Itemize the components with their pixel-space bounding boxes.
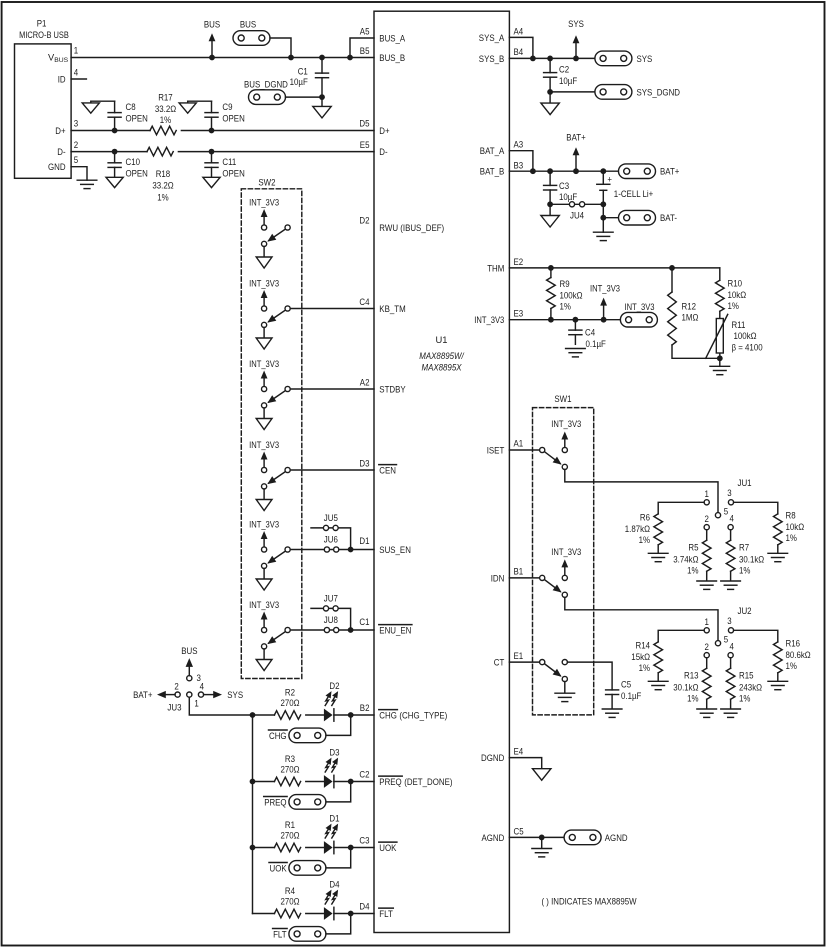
svg-text:(CHG_TYPE): (CHG_TYPE) <box>399 710 447 720</box>
svg-text:10µF: 10µF <box>559 76 577 86</box>
svg-text:C9: C9 <box>222 102 232 112</box>
svg-text:ENU_EN: ENU_EN <box>379 625 411 635</box>
svg-text:PREQ: PREQ <box>264 797 286 807</box>
svg-text:SYS: SYS <box>637 54 653 64</box>
svg-text:B1: B1 <box>514 567 524 577</box>
svg-text:1: 1 <box>74 46 78 56</box>
svg-text:BUS_DGND: BUS_DGND <box>244 80 288 90</box>
svg-text:CHG: CHG <box>269 731 287 741</box>
svg-text:BAT+: BAT+ <box>133 690 152 700</box>
svg-text:AGND: AGND <box>605 833 628 843</box>
svg-text:(DET_DONE): (DET_DONE) <box>404 777 452 787</box>
svg-text:1%: 1% <box>687 565 698 575</box>
svg-text:C1: C1 <box>298 66 308 76</box>
svg-text:80.6kΩ: 80.6kΩ <box>786 650 811 660</box>
svg-text:RWU (IBUS_DEF): RWU (IBUS_DEF) <box>379 223 444 233</box>
svg-text:1-CELL Li+: 1-CELL Li+ <box>614 189 654 199</box>
svg-text:R1: R1 <box>285 820 295 830</box>
svg-text:SYS_A: SYS_A <box>479 33 505 43</box>
svg-text:SYS: SYS <box>227 690 243 700</box>
svg-text:270Ω: 270Ω <box>281 764 300 774</box>
svg-text:A4: A4 <box>514 26 524 36</box>
svg-text:A2: A2 <box>360 377 370 387</box>
svg-text:MAX8895W/: MAX8895W/ <box>419 351 465 361</box>
svg-text:BUS: BUS <box>240 19 256 29</box>
svg-text:INT_3V3: INT_3V3 <box>551 419 581 429</box>
svg-text:D1: D1 <box>359 536 369 546</box>
svg-text:OPEN: OPEN <box>126 169 148 179</box>
svg-text:BUS_A: BUS_A <box>379 33 406 43</box>
svg-text:30.1kΩ: 30.1kΩ <box>739 554 764 564</box>
svg-text:4: 4 <box>730 513 734 523</box>
svg-text:2: 2 <box>74 140 78 150</box>
svg-text:JU8: JU8 <box>324 615 338 625</box>
svg-text:CEN: CEN <box>379 465 396 475</box>
svg-text:SYS_DGND: SYS_DGND <box>637 87 681 97</box>
svg-text:5: 5 <box>724 506 728 516</box>
svg-text:E4: E4 <box>514 747 524 757</box>
svg-text:D+: D+ <box>55 126 65 136</box>
svg-text:D-: D- <box>379 147 387 157</box>
svg-text:30.1kΩ: 30.1kΩ <box>673 682 698 692</box>
svg-text:R10: R10 <box>728 279 743 289</box>
svg-text:D+: D+ <box>379 126 389 136</box>
svg-text:BAT_A: BAT_A <box>480 146 505 156</box>
svg-text:E2: E2 <box>514 257 524 267</box>
svg-text:B5: B5 <box>360 46 370 56</box>
svg-text:INT_3V3: INT_3V3 <box>249 519 279 529</box>
svg-text:KB_TM: KB_TM <box>379 304 405 314</box>
svg-text:INT_3V3: INT_3V3 <box>590 284 620 294</box>
svg-text:C1: C1 <box>359 617 369 627</box>
svg-text:BAT+: BAT+ <box>566 132 585 142</box>
svg-text:E5: E5 <box>360 140 370 150</box>
svg-text:R5: R5 <box>688 543 698 553</box>
svg-text:PREQ: PREQ <box>379 777 401 787</box>
svg-text:B3: B3 <box>514 160 524 170</box>
svg-text:270Ω: 270Ω <box>281 698 300 708</box>
svg-text:1: 1 <box>705 617 709 627</box>
svg-text:C8: C8 <box>126 102 136 112</box>
svg-text:FLT: FLT <box>379 909 393 919</box>
svg-text:1%: 1% <box>560 302 571 312</box>
svg-text:GND: GND <box>48 162 66 172</box>
svg-text:ID: ID <box>58 74 66 84</box>
svg-text:JU4: JU4 <box>570 211 584 221</box>
svg-text:4: 4 <box>74 67 78 77</box>
svg-text:10µF: 10µF <box>559 192 577 202</box>
svg-text:R11: R11 <box>732 320 746 330</box>
svg-text:R14: R14 <box>636 641 651 651</box>
svg-text:C2: C2 <box>359 769 369 779</box>
svg-text:2: 2 <box>705 642 709 652</box>
svg-text:5: 5 <box>724 634 728 644</box>
svg-text:OPEN: OPEN <box>222 114 244 124</box>
svg-text:C3: C3 <box>559 181 569 191</box>
svg-text:STDBY: STDBY <box>379 384 405 394</box>
svg-text:P1: P1 <box>37 19 47 29</box>
svg-text:1MΩ: 1MΩ <box>682 312 699 322</box>
svg-text:1.87kΩ: 1.87kΩ <box>625 524 650 534</box>
svg-text:4: 4 <box>730 641 734 651</box>
svg-text:BAT_B: BAT_B <box>480 167 505 177</box>
svg-text:BUS_B: BUS_B <box>379 53 405 63</box>
svg-text:IDN: IDN <box>491 573 505 583</box>
svg-text:R4: R4 <box>285 886 295 896</box>
svg-text:R6: R6 <box>640 513 650 523</box>
svg-text:10µF: 10µF <box>290 77 308 87</box>
svg-text:100kΩ: 100kΩ <box>734 331 757 341</box>
svg-text:OPEN: OPEN <box>126 114 148 124</box>
svg-text:D4: D4 <box>359 901 369 911</box>
svg-text:SUS_EN: SUS_EN <box>379 545 411 555</box>
svg-text:33.2Ω: 33.2Ω <box>152 181 173 191</box>
svg-text:1%: 1% <box>786 661 797 671</box>
svg-text:A1: A1 <box>514 439 524 449</box>
svg-text:D4: D4 <box>329 880 339 890</box>
svg-text:INT_3V3: INT_3V3 <box>249 278 279 288</box>
svg-text:R15: R15 <box>739 671 754 681</box>
svg-text:R7: R7 <box>739 543 749 553</box>
svg-text:MICRO-B USB: MICRO-B USB <box>19 30 69 40</box>
svg-text:BAT+: BAT+ <box>660 167 679 177</box>
svg-text:15kΩ: 15kΩ <box>631 652 650 662</box>
svg-text:U1: U1 <box>436 335 448 345</box>
svg-text:C2: C2 <box>559 65 569 75</box>
svg-text:C11: C11 <box>222 157 236 167</box>
svg-text:1%: 1% <box>739 693 750 703</box>
svg-text:D5: D5 <box>359 119 369 129</box>
svg-text:FLT: FLT <box>273 929 287 939</box>
svg-text:A5: A5 <box>360 26 370 36</box>
svg-text:B2: B2 <box>360 703 370 713</box>
svg-text:BAT-: BAT- <box>660 213 677 223</box>
svg-text:BUS: BUS <box>181 646 197 656</box>
svg-text:R2: R2 <box>285 687 295 697</box>
svg-text:0.1µF: 0.1µF <box>621 691 642 701</box>
svg-text:UOK: UOK <box>379 843 397 853</box>
svg-text:C5: C5 <box>621 680 631 690</box>
svg-text:1%: 1% <box>157 192 168 202</box>
svg-text:SW1: SW1 <box>554 394 571 404</box>
svg-text:OPEN: OPEN <box>222 169 244 179</box>
svg-text:JU2: JU2 <box>738 606 752 616</box>
svg-text:β = 4100: β = 4100 <box>732 343 763 353</box>
svg-text:SW2: SW2 <box>258 177 275 187</box>
svg-text:3: 3 <box>727 488 731 498</box>
svg-text:C4: C4 <box>359 297 369 307</box>
svg-text:10kΩ: 10kΩ <box>786 522 805 532</box>
svg-text:D3: D3 <box>329 748 339 758</box>
svg-text:INT_3V3: INT_3V3 <box>625 302 655 312</box>
svg-text:R12: R12 <box>682 301 697 311</box>
svg-text:1%: 1% <box>160 115 171 125</box>
svg-text:1: 1 <box>194 699 198 709</box>
svg-text:D1: D1 <box>329 814 339 824</box>
svg-text:1%: 1% <box>728 301 739 311</box>
svg-text:C5: C5 <box>514 826 524 836</box>
svg-text:E1: E1 <box>514 651 524 661</box>
svg-text:BUS: BUS <box>204 19 220 29</box>
svg-text:33.2Ω: 33.2Ω <box>155 104 176 114</box>
svg-text:D2: D2 <box>329 681 339 691</box>
svg-text:270Ω: 270Ω <box>281 830 300 840</box>
svg-text:243kΩ: 243kΩ <box>739 682 762 692</box>
svg-text:R9: R9 <box>560 279 570 289</box>
svg-text:C10: C10 <box>126 157 141 167</box>
svg-text:1%: 1% <box>687 693 698 703</box>
svg-text:4: 4 <box>200 681 204 691</box>
svg-text:D3: D3 <box>359 458 369 468</box>
svg-text:JU5: JU5 <box>324 513 338 523</box>
svg-text:UOK: UOK <box>270 863 288 873</box>
svg-text:INT_3V3: INT_3V3 <box>249 600 279 610</box>
svg-text:B4: B4 <box>514 47 524 57</box>
svg-text:SYS_B: SYS_B <box>479 54 505 64</box>
svg-text:INT_3V3: INT_3V3 <box>249 359 279 369</box>
svg-text:C3: C3 <box>359 835 369 845</box>
svg-text:10kΩ: 10kΩ <box>728 290 747 300</box>
svg-text:JU3: JU3 <box>167 703 181 713</box>
svg-text:R3: R3 <box>285 754 295 764</box>
svg-text:( ) INDICATES MAX8895W: ( ) INDICATES MAX8895W <box>542 897 637 907</box>
svg-text:3: 3 <box>727 616 731 626</box>
svg-text:+: + <box>607 174 612 184</box>
svg-text:INT_3V3: INT_3V3 <box>551 547 581 557</box>
svg-text:D2: D2 <box>359 215 369 225</box>
svg-text:THM: THM <box>487 263 504 273</box>
svg-text:R16: R16 <box>786 639 801 649</box>
svg-text:R18: R18 <box>156 169 171 179</box>
svg-text:1: 1 <box>705 489 709 499</box>
svg-text:JU1: JU1 <box>738 478 752 488</box>
svg-text:CHG: CHG <box>379 710 397 720</box>
svg-text:INT_3V3: INT_3V3 <box>249 440 279 450</box>
svg-text:ISET: ISET <box>487 445 505 455</box>
svg-text:R8: R8 <box>786 511 796 521</box>
svg-text:INT_3V3: INT_3V3 <box>249 197 279 207</box>
svg-text:0.1µF: 0.1µF <box>586 339 607 349</box>
svg-text:1%: 1% <box>786 533 797 543</box>
svg-text:C4: C4 <box>585 328 595 338</box>
svg-text:1%: 1% <box>739 565 750 575</box>
svg-text:D-: D- <box>57 147 65 157</box>
svg-text:INT_3V3: INT_3V3 <box>474 315 504 325</box>
svg-text:JU7: JU7 <box>324 594 338 604</box>
svg-text:5: 5 <box>74 155 78 165</box>
svg-text:3.74kΩ: 3.74kΩ <box>673 554 698 564</box>
svg-text:270Ω: 270Ω <box>281 896 300 906</box>
svg-text:1%: 1% <box>639 535 650 545</box>
svg-text:R13: R13 <box>684 671 699 681</box>
svg-text:JU6: JU6 <box>324 535 338 545</box>
svg-text:E3: E3 <box>514 309 524 319</box>
svg-text:SYS: SYS <box>568 19 584 29</box>
svg-text:2: 2 <box>174 681 178 691</box>
svg-text:MAX8895X: MAX8895X <box>422 363 463 373</box>
svg-text:R17: R17 <box>158 93 173 103</box>
svg-text:A3: A3 <box>514 140 524 150</box>
svg-text:2: 2 <box>705 514 709 524</box>
svg-text:AGND: AGND <box>482 833 505 843</box>
svg-text:100kΩ: 100kΩ <box>560 290 583 300</box>
svg-text:3: 3 <box>74 119 78 129</box>
svg-text:1%: 1% <box>639 663 650 673</box>
svg-text:DGND: DGND <box>481 753 505 763</box>
svg-text:CT: CT <box>494 658 505 668</box>
